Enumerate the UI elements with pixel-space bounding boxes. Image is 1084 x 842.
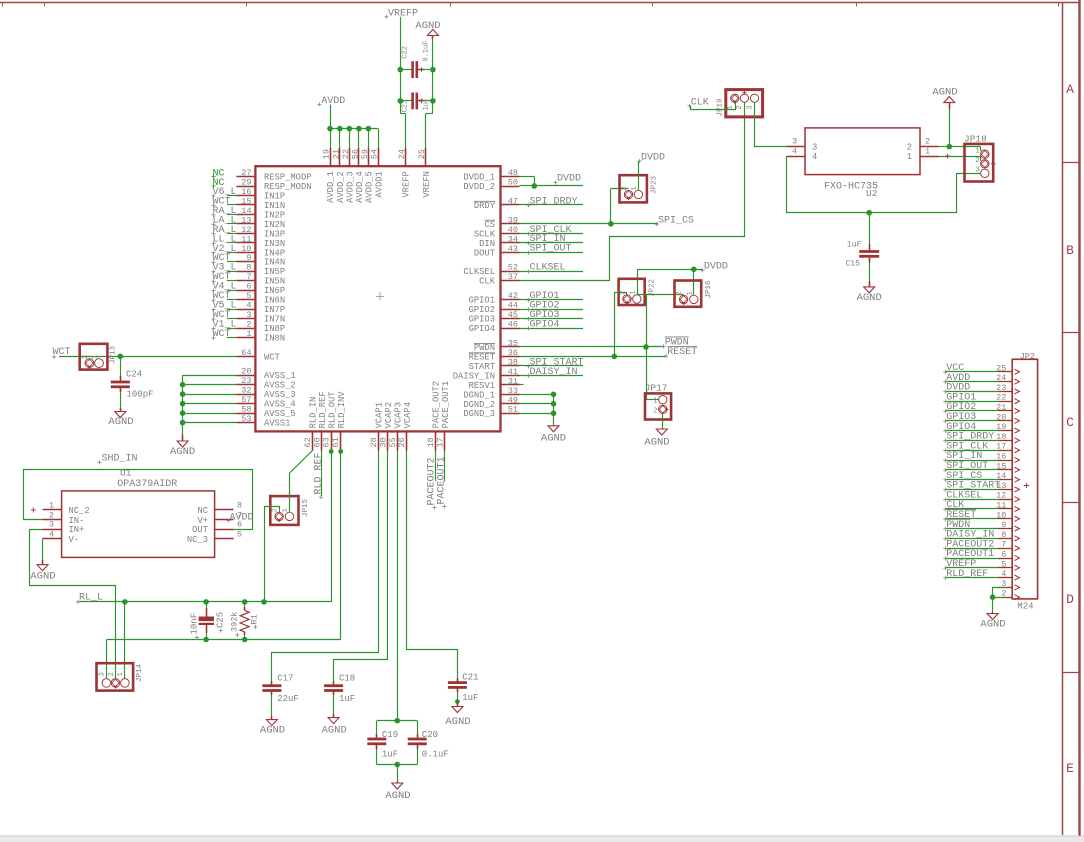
svg-text:1: 1 [653,398,657,406]
wire JP15 pad2 riser [265,507,280,602]
svg-text:1: 1 [686,291,694,295]
junction C24 tap [118,354,124,360]
IC pin 3 IN7N [236,318,255,320]
window bottom strip [0,836,1084,842]
JP2 pin 10 [998,518,1012,520]
svg-text:44: 44 [508,301,518,311]
svg-text:RESP_MODP: RESP_MODP [264,173,312,183]
AGND symbol C21 [457,702,459,707]
svg-text:5: 5 [237,529,242,539]
JP15 pad 1 [285,512,293,520]
svg-text:19: 19 [322,149,332,159]
wire CLK JP2 pin 11 [946,508,998,510]
svg-text:START: START [469,362,495,372]
wire SPI_OUT JP2 pin 15 [946,469,998,471]
svg-text:21: 21 [331,149,341,159]
JP19 pad 2 [740,94,748,102]
JP19 pad 1 [731,94,739,102]
svg-text:JP14: JP14 [136,663,144,682]
wire AGND pin 32 [183,394,237,396]
svg-text:2: 2 [272,508,280,512]
IC pin 38 START [501,365,520,367]
svg-text:AGND: AGND [30,571,55,583]
wire SPI_CS JP2 pin 14 [946,479,998,481]
svg-text:R1: R1 [249,614,259,624]
svg-text:RESET: RESET [667,347,697,358]
svg-text:2: 2 [907,143,912,153]
jumper JP18 body [965,144,994,182]
wire VCAP3 to C19 C20 [397,451,399,721]
svg-text:47: 47 [508,196,518,206]
svg-text:2: 2 [925,137,930,147]
JP2 origin cross [1024,483,1030,489]
wire SPI_OUT pin43 [520,252,584,254]
svg-text:IN1P: IN1P [264,191,285,201]
svg-text:IN8P: IN8P [264,324,285,334]
svg-text:SPI_DRDY: SPI_DRDY [530,196,578,207]
svg-text:RLD_OUT: RLD_OUT [327,391,337,428]
wire SPI_IN pin34 [520,242,584,244]
AGND symbol AVSS [182,435,184,441]
svg-text:AGND: AGND [980,619,1005,631]
svg-text:NC_3: NC_3 [187,535,208,545]
frame right outer line [1078,0,1080,842]
junction C22 right [430,67,436,73]
svg-text:1: 1 [907,152,912,162]
svg-text:OPA379AIDR: OPA379AIDR [117,479,177,490]
svg-text:57: 57 [241,395,251,405]
wire SPI_DRDY pin47 [520,204,584,206]
junction AVSS [180,401,186,407]
JP2 pin 4 [998,577,1012,579]
AGND symbol C18 [333,714,335,718]
wire RLD_INV riser pin61 [340,452,342,640]
svg-text:38: 38 [508,357,518,367]
junction U2 pin2 [947,144,953,150]
svg-text:AVDD: AVDD [321,96,345,107]
connector JP2 body [1012,359,1037,599]
JP2 pin 18 [998,440,1012,442]
op-amp U1 body [62,491,215,558]
svg-text:M24: M24 [1017,601,1033,611]
svg-text:AVSS_3: AVSS_3 [264,390,296,400]
IC pin 61 RLD_INV [340,431,342,450]
svg-text:42: 42 [508,291,518,301]
JP18 pad 3 [981,169,989,177]
svg-text:51: 51 [508,405,518,415]
svg-text:1: 1 [975,148,980,156]
JP2 pin 11 [998,508,1012,510]
wire JP14 pad3 riser [106,640,108,679]
svg-text:JP18: JP18 [964,133,987,144]
svg-text:C21: C21 [462,673,478,683]
AVSS ground bus [182,375,184,434]
svg-text:53: 53 [241,414,251,424]
wire JP22 pad2 to RESET [626,292,628,295]
IC pin 12 IN3P [236,233,255,235]
IC pin 27 RESP_MODP [236,176,255,178]
IC pin 51 DGND_3 [501,413,520,415]
junction RESET [612,354,618,360]
wire PWDN pin35 [520,346,664,348]
svg-text:E: E [1066,761,1074,776]
svg-text:V-: V- [69,535,80,545]
junction DVDD JP16 [691,267,697,273]
IC pin 14 IN2P [236,214,255,216]
svg-text:JP23: JP23 [651,175,659,194]
svg-text:2: 2 [246,320,251,330]
wire PACEOUT1 JP2 pin 6 [946,558,998,560]
JP14 pad 2 [111,679,120,688]
svg-text:DVDD: DVDD [557,174,581,185]
svg-text:RLD_INV: RLD_INV [337,391,347,429]
svg-text:IN5P: IN5P [264,267,285,277]
jumper JP14 body [97,663,134,690]
IC pin 29 RESP_MODN [236,186,255,188]
JP13 pad 1 [95,359,104,368]
wire CLK route pin37 to JP19 [520,102,745,280]
JP2 pin 22 [998,401,1012,403]
svg-text:GPIO2: GPIO2 [469,305,495,315]
wire net V3_L pin 8 [227,271,237,273]
svg-text:AGND: AGND [445,716,470,728]
IC pin 2 IN8P [236,328,255,330]
wire AVDD drop [339,129,341,148]
IC pin 54 AVDD1 [378,148,380,166]
svg-text:6: 6 [237,520,242,530]
wire VCAP1 to C17 [272,451,379,681]
JP2 pin 21 [998,410,1012,412]
svg-text:AVSS1: AVSS1 [264,419,290,429]
svg-text:RESV1: RESV1 [469,381,495,391]
svg-text:59: 59 [360,149,370,159]
svg-text:NC_2: NC_2 [69,506,90,516]
svg-text:3: 3 [49,520,54,530]
wire JP22 pad1 to JP16 pad2 [637,294,683,296]
wire C19 C20 top rail [377,720,417,722]
junction AVSS [180,382,186,388]
JP2 pin 20 [998,420,1012,422]
svg-text:1: 1 [727,105,735,109]
wire U2 pin2 to JP18 pad1 [949,146,980,148]
JP2 pin 25 [998,371,1012,373]
svg-text:1uF: 1uF [339,694,355,704]
junction DGND1 [551,392,557,398]
svg-text:34: 34 [508,234,518,244]
wire GPIO1 JP2 pin 22 [946,401,998,403]
svg-text:0.1uF: 0.1uF [422,750,449,760]
IC pin 58 AVSS_5 [236,413,255,415]
IC pin 15 IN1N [236,204,255,206]
wire RESET JP2 pin 10 [946,518,998,520]
wire RESET pin36 [520,356,666,358]
IC pin 33 DGND_1 [501,394,520,396]
IC pin 57 AVSS_4 [236,403,255,405]
IC pin 31 RESV1 [501,384,520,386]
svg-text:2: 2 [676,291,684,295]
wire U2 pin4 loop to JP18 pad3 [787,156,957,212]
IC pin 24 VREFP [405,148,407,166]
wire GPIO2 JP2 pin 21 [946,410,998,412]
AGND symbol top [427,30,438,36]
junction AVDD [356,126,362,132]
wire DVDD pin48 [520,176,535,178]
svg-text:25: 25 [417,149,427,159]
junction C21 bottom [455,699,460,704]
svg-text:58: 58 [241,405,251,415]
svg-text:DVDD_2: DVDD_2 [463,182,495,192]
svg-text:6: 6 [246,282,251,292]
svg-text:1: 1 [631,186,639,190]
svg-text:IN4N: IN4N [264,258,285,268]
svg-text:C15: C15 [846,260,861,269]
wire JP2 pin2 to AGND [993,597,1006,599]
svg-text:SPI_CS: SPI_CS [658,215,694,226]
svg-text:AGND: AGND [170,446,195,458]
svg-text:24: 24 [397,149,407,159]
junction R1 top [242,599,248,605]
svg-text:46: 46 [508,320,518,330]
svg-text:4: 4 [792,146,797,156]
svg-text:1: 1 [925,146,930,156]
AGND symbol C15 [869,281,871,287]
wire SPI_CLK pin40 [520,233,584,235]
svg-text:6: 6 [1001,550,1006,560]
IC pin 5 IN6N [236,299,255,301]
wire CS pin39 [520,223,611,225]
IC pin 59 AVDD_5 [368,148,370,166]
wire PWDN to JP17 [646,294,648,399]
wire GPIO2 [520,309,584,311]
svg-text:U2: U2 [866,188,878,199]
wire VREFP JP2 pin 5 [946,567,998,569]
svg-text:AVSS_1: AVSS_1 [264,371,296,381]
junction DGND3 [551,410,557,416]
svg-text:JP19: JP19 [716,98,724,116]
IC pin 6 IN6P [236,290,255,292]
wire GPIO4 JP2 pin 19 [946,430,998,432]
capacitor C21 [457,678,459,682]
wire U2 pin2 to junction [939,146,950,148]
junction AVDD [366,126,372,132]
svg-text:43: 43 [508,244,518,254]
svg-text:C: C [1066,415,1074,430]
U2 pin 4 [787,156,805,158]
JP2 pin 16 [998,460,1012,462]
svg-text:A: A [1066,82,1074,97]
svg-text:37: 37 [508,272,518,282]
JP2 pin 13 [998,489,1012,491]
junction pin63 [329,449,334,454]
junction AVSS [180,391,186,397]
svg-text:1: 1 [629,291,637,295]
wire RL_L bus [79,601,331,603]
AGND symbol U2 top [949,103,951,109]
IC pin 4 IN7P [236,309,255,311]
JP14 pad 3 [102,679,111,688]
U2 pin 1 [920,156,939,158]
junction JP15 riser [261,599,267,605]
IC pin 46 GPIO4 [501,328,520,330]
JP2 pin 19 [998,430,1012,432]
svg-text:3: 3 [812,143,817,153]
wire net WCT pin 1 [227,337,237,339]
JP15 pad 2 [275,512,283,520]
svg-text:63: 63 [322,437,332,447]
wire AGND pin 53 [183,422,237,424]
junction C22 left [398,67,404,73]
JP18 pad 1 [981,150,989,158]
svg-text:100pF: 100pF [127,389,154,399]
jumper JP16 body [675,281,702,307]
JP2 pin 8 [998,538,1012,540]
wire PACEOUT1 pin17 [444,451,446,482]
svg-text:IN6N: IN6N [264,296,285,306]
U2 pin 3 [787,146,805,148]
IC pin 37 CLK [501,280,520,282]
wire GPIO4 [520,328,584,330]
wire net WCT pin 7 [227,280,237,282]
frame right inner line [1062,2,1064,835]
IC pin 32 AVSS_3 [236,394,255,396]
wire net WCT pin 5 [227,299,237,301]
JP23 pad 2 [624,190,632,198]
svg-text:61: 61 [331,437,341,447]
junction AVDD [337,126,343,132]
AGND symbol C24 [120,408,122,412]
wire U2 pin1 to JP18 pad2 [939,156,981,158]
svg-text:50: 50 [508,178,518,188]
svg-text:40: 40 [508,225,518,235]
IC pin 44 GPIO2 [501,309,520,311]
U1 pin 1 NC_2 [43,509,62,511]
svg-text:2: 2 [736,105,744,109]
wire WCT to pin 64 [59,356,236,358]
wire net V6_L pin 16 [227,195,237,197]
wire DAISY_IN JP2 pin 8 [946,538,998,540]
svg-text:32: 32 [241,386,251,396]
wire SPI_IN JP2 pin 16 [946,460,998,462]
svg-text:RLD_IN: RLD_IN [309,397,319,429]
wire VCC JP2 pin 25 [946,371,998,373]
wire net RA_L pin 14 [227,214,237,216]
svg-text:PACE_OUT1: PACE_OUT1 [441,381,451,429]
wire JP2 pin3 to AGND [993,588,1006,598]
svg-text:AVDD_3: AVDD_3 [346,171,356,203]
IC U3 ADS1298 body [255,166,500,431]
svg-text:8: 8 [1001,530,1006,540]
wire net LL_L pin 11 [227,242,237,244]
svg-text:8: 8 [246,263,251,273]
svg-text:DGND_1: DGND_1 [463,390,495,400]
svg-text:IN3P: IN3P [264,229,285,239]
svg-text:C25: C25 [215,612,225,628]
jumper JP19 body [726,90,763,117]
IC pin 16 IN1P [236,195,255,197]
wire riser JP22 pad1 [637,269,639,295]
svg-text:4: 4 [1001,569,1006,579]
IC pin 26 VCAP4 [406,431,408,450]
capacitor C22 [400,69,411,71]
junction DVDD [532,183,538,189]
junction C23 left [398,98,404,104]
svg-text:RLD_REF: RLD_REF [946,569,988,580]
wire AVDD drop [368,129,370,148]
IC pin 62 RLD_IN [312,431,314,450]
wire feedback SHD_IN [24,470,253,530]
IC pin 42 GPIO1 [501,299,520,301]
resistor R1 [244,602,246,607]
wire net LA_L pin 13 [227,223,237,225]
junction C19 C20 bottom [395,762,401,768]
wire VREFP vertical [400,17,402,114]
svg-text:IN6P: IN6P [264,286,285,296]
JP13 pad 2 [85,359,94,368]
AGND symbol DGND [553,425,555,427]
svg-text:5: 5 [246,291,251,301]
svg-text:CS: CS [484,220,495,230]
wire JP18 pad1 link [980,147,982,152]
JP2 pin 9 [998,528,1012,530]
junction R1 bottom [242,637,248,643]
svg-text:18: 18 [426,437,436,447]
wire net RA_L pin 12 [227,233,237,235]
svg-text:DOUT: DOUT [474,248,495,258]
AGND symbol JP17 [662,428,664,429]
IC pin 47 DRDY [501,204,520,206]
wire PACEOUT2 pin18 [435,451,437,481]
svg-text:12: 12 [241,225,251,235]
wire CLKSEL JP2 pin 12 [946,499,998,501]
junction AVDD [347,126,353,132]
junction pin61 [338,449,343,454]
svg-text:9: 9 [246,253,251,263]
IC pin 8 IN5P [236,271,255,273]
wire DVDD JP2 pin 23 [946,391,998,393]
JP2 pin 23 [998,391,1012,393]
svg-text:48: 48 [508,168,518,178]
wire to AGND C19C20 [397,765,399,782]
IC pin 20 AVSS_1 [236,375,255,377]
svg-text:52: 52 [508,263,518,273]
svg-text:1uF: 1uF [462,693,478,703]
wire GPIO1 [520,299,584,301]
capacitor C17 [271,681,273,685]
svg-text:11: 11 [241,234,251,244]
wire AGND pin 58 [183,413,237,415]
junction C15 tap [866,210,872,216]
svg-text:AVSS_4: AVSS_4 [264,400,296,410]
IC pin 40 SCLK [501,233,520,235]
svg-text:4: 4 [812,152,817,162]
svg-text:2: 2 [108,672,116,676]
svg-text:AGND: AGND [644,436,669,448]
svg-text:IN2N: IN2N [264,220,285,230]
wire AVDD drop [358,129,360,148]
svg-text:AGND: AGND [541,432,566,444]
wire net V5_L pin 4 [227,309,237,311]
IC pin 41 DAISY_IN [501,375,520,377]
wire SPI_CS label [611,223,658,225]
wire SPI_CLK JP2 pin 17 [946,450,998,452]
svg-text:26: 26 [397,437,407,447]
IC pin 49 DGND_2 [501,403,520,405]
JP2 pin 3 [998,587,1012,589]
IC pin 7 IN5N [236,280,255,282]
wire GPIO3 [520,318,584,320]
junction SPI_CS [608,221,614,227]
svg-text:AGND: AGND [108,416,133,428]
